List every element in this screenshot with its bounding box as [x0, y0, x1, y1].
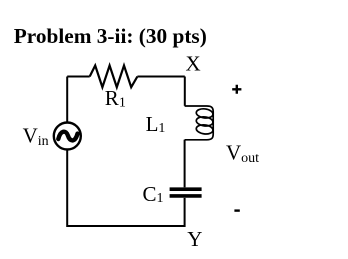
resistor R1 — [90, 66, 138, 88]
wire: left wire below source, bottom rail, up to capacitor — [67, 150, 184, 227]
capacitor C1 — [170, 189, 202, 196]
sine symbol — [58, 132, 77, 141]
svg-text:Problem 3-ii: (30 pts): Problem 3-ii: (30 pts) — [14, 24, 207, 48]
svg-text:C1: C1 — [143, 182, 164, 206]
wire: top rail right lead — [137, 76, 184, 78]
svg-text:X: X — [186, 52, 201, 76]
svg-text:L1: L1 — [146, 112, 166, 136]
svg-text:R1: R1 — [105, 86, 126, 110]
inductor L1 — [185, 106, 214, 140]
wire: left wire from top rail to source — [66, 77, 68, 122]
minus sign — [234, 209, 239, 211]
wire: right wire from capacitor up to inductor — [184, 140, 186, 188]
wire: top rail left lead — [67, 76, 90, 78]
wire: right wire from top rail to inductor — [184, 77, 186, 106]
svg-text:Vout: Vout — [226, 141, 259, 166]
svg-text:Y: Y — [187, 227, 202, 251]
svg-text:Vin: Vin — [23, 123, 49, 148]
plus sign — [232, 85, 241, 94]
source V1 (ac source) — [54, 123, 81, 150]
